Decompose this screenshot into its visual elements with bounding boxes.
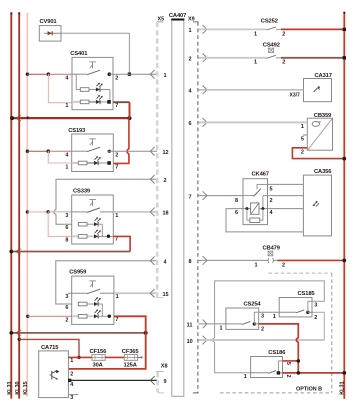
fuse CF156 30A bbox=[90, 349, 108, 368]
wire X9 pin11 to CS254 pin1 bbox=[199, 323, 226, 325]
svg-text:CA715: CA715 bbox=[41, 345, 59, 351]
switch CS252 bbox=[199, 18, 286, 37]
wire branch down to CS186 pin1 (hop over X9-10 wire) bbox=[213, 324, 251, 373]
X9 pin 2 arrow bbox=[189, 54, 208, 63]
wire branch up-loop to CS185 pin3 bbox=[215, 281, 325, 324]
wire CS186 pin2 red to KL31 bbox=[283, 371, 347, 375]
svg-text:2: 2 bbox=[270, 198, 273, 204]
X9 pin 4 arrow bbox=[189, 86, 208, 95]
switch CS959 bbox=[65, 270, 118, 325]
svg-text:KL15: KL15 bbox=[23, 382, 29, 395]
OPTION B dashed frame bbox=[220, 273, 332, 393]
X5 pin 1 arrow bbox=[150, 70, 166, 79]
wire CS339 pin1 to X5 pin18 bbox=[113, 211, 157, 213]
svg-text:KL31: KL31 bbox=[339, 382, 345, 395]
wire red ground chain G1 down to CS193 pin7 bbox=[113, 118, 129, 163]
wire CS959 pin7 ground to G3 and down to CA715 pin2 bbox=[68, 316, 145, 369]
svg-text:7: 7 bbox=[115, 237, 118, 243]
svg-text:2: 2 bbox=[115, 152, 118, 158]
svg-text:CS401: CS401 bbox=[70, 51, 88, 57]
svg-text:2: 2 bbox=[115, 75, 118, 81]
X8 pin 9 arrow bbox=[150, 376, 166, 385]
svg-text:15: 15 bbox=[163, 292, 169, 298]
svg-text:1: 1 bbox=[301, 124, 304, 130]
svg-text:CA356: CA356 bbox=[314, 169, 332, 175]
svg-text:2: 2 bbox=[70, 372, 73, 378]
X9 pin 6 arrow bbox=[189, 118, 208, 127]
wire CS401 pin7 ground (brown/red to G1) bbox=[113, 102, 130, 118]
wire CS254 pin2 red down (hop over X9-10 wire) bbox=[259, 324, 299, 373]
wire CB479 pin2 red to KL31 bbox=[278, 259, 347, 263]
svg-text:CK467: CK467 bbox=[252, 171, 269, 177]
switch CS185 bbox=[273, 291, 318, 321]
svg-text:2: 2 bbox=[314, 315, 317, 321]
X9 pin 11 arrow bbox=[187, 320, 207, 329]
wire X9 pin4 to CA317 X3/7 bbox=[199, 90, 304, 99]
inline connector CB479 bbox=[199, 246, 286, 269]
svg-text:OPTION B: OPTION B bbox=[296, 387, 322, 393]
wire X5 pin4 down to CS959 pin6 bbox=[56, 261, 157, 304]
svg-text:2: 2 bbox=[282, 60, 285, 66]
svg-text:1: 1 bbox=[116, 294, 119, 300]
svg-text:2: 2 bbox=[301, 150, 304, 156]
svg-text:7: 7 bbox=[115, 317, 118, 323]
wire KL15 tap to CS193 pin4 bbox=[26, 149, 72, 153]
svg-text:1: 1 bbox=[254, 31, 257, 37]
bus KL15 left vertical (pink) bbox=[26, 13, 28, 397]
svg-text:CV901: CV901 bbox=[40, 19, 58, 25]
wire KL15 tap down to CS401 pin1 bbox=[48, 74, 72, 103]
connector X9 dashed column bbox=[188, 16, 199, 393]
X9 pin 7 arrow bbox=[189, 191, 208, 200]
wire CA715 pin3 stub bbox=[68, 394, 78, 396]
diode CV901 bbox=[39, 19, 61, 41]
wire CS186 pin5 red bbox=[283, 359, 301, 363]
svg-text:1: 1 bbox=[65, 103, 68, 109]
switch CS186 bbox=[244, 350, 291, 380]
wire KL15 tap to CS339 pin3 bbox=[26, 210, 72, 214]
X5 pin 18 arrow bbox=[150, 208, 168, 217]
svg-text:1: 1 bbox=[189, 28, 192, 34]
connector X8 dashed column bbox=[156, 363, 168, 393]
wire KL15 tap to CS401 pin4 bbox=[26, 72, 72, 76]
wire CK467 pin5 to CA356 bbox=[268, 183, 304, 185]
svg-text:1: 1 bbox=[244, 374, 247, 380]
svg-text:7: 7 bbox=[115, 103, 118, 109]
wire CS401 pin2 to X5 pin1 bbox=[113, 73, 157, 75]
svg-text:2: 2 bbox=[261, 327, 264, 333]
wire KL15 tap down to CS339 pin8 bbox=[48, 212, 72, 237]
svg-text:CS339: CS339 bbox=[73, 188, 91, 194]
bus KL30 left vertical bbox=[18, 12, 20, 398]
X5 pin 15 arrow bbox=[150, 289, 168, 298]
wire CS959 pin1 to X5 pin15 bbox=[114, 292, 157, 294]
svg-text:3: 3 bbox=[65, 294, 68, 300]
svg-text:6: 6 bbox=[65, 225, 68, 231]
wire CS492 pin2 brown to KL31 bbox=[281, 56, 346, 59]
wire CS254 pin3 to CS185 pin1 bbox=[259, 311, 280, 313]
svg-text:2: 2 bbox=[189, 57, 192, 63]
svg-text:6: 6 bbox=[189, 121, 192, 127]
svg-text:8: 8 bbox=[235, 198, 238, 204]
svg-text:1: 1 bbox=[65, 165, 68, 171]
wire CS252 pin2 red to KL31 bbox=[281, 28, 346, 31]
svg-text:3: 3 bbox=[314, 303, 317, 309]
svg-text:3: 3 bbox=[261, 314, 264, 320]
svg-text:7: 7 bbox=[115, 165, 118, 171]
svg-text:2: 2 bbox=[282, 262, 285, 268]
wire CK467 pin6 loop to CA356 bottom bbox=[226, 209, 303, 232]
svg-text:CS186: CS186 bbox=[268, 350, 286, 356]
svg-text:1: 1 bbox=[273, 314, 276, 320]
svg-text:10: 10 bbox=[187, 339, 193, 345]
svg-text:5: 5 bbox=[285, 362, 291, 365]
wire CB359 pin2 red to KL31 bbox=[292, 148, 346, 161]
wire CV901 to node (down to X5-1 net) bbox=[61, 33, 129, 74]
X5 pin 4 arrow bbox=[150, 257, 167, 266]
svg-text:2: 2 bbox=[282, 31, 285, 37]
relay CK467 bbox=[235, 171, 274, 224]
svg-text:X3/7: X3/7 bbox=[290, 92, 301, 98]
svg-text:CS252: CS252 bbox=[261, 18, 278, 24]
svg-text:5: 5 bbox=[270, 186, 273, 192]
svg-text:CS959: CS959 bbox=[69, 270, 87, 276]
wire KL15 tap to CS959 pin2 bbox=[26, 315, 72, 318]
X5 pin 2 arrow bbox=[150, 175, 166, 184]
wire KL30 tap to CA715 pin1 / fuses bbox=[18, 338, 81, 359]
bus KL31 left vertical bbox=[10, 12, 12, 398]
svg-text:CS254: CS254 bbox=[244, 301, 262, 307]
svg-text:KL31: KL31 bbox=[7, 382, 13, 395]
svg-text:CS185: CS185 bbox=[298, 291, 316, 297]
svg-text:X8: X8 bbox=[161, 363, 168, 369]
wire CK467 pin2 to CA356 bbox=[268, 195, 304, 197]
svg-text:1: 1 bbox=[255, 262, 258, 268]
wire X9 pin10 to CS185 pin2 loop bbox=[199, 339, 325, 341]
svg-text:1: 1 bbox=[254, 60, 257, 66]
wire CA715 pin4 to X8 pin9 (black) bbox=[68, 379, 157, 382]
node junction square CV901/CS401.2/X5-1 bbox=[128, 73, 131, 76]
svg-text:2: 2 bbox=[65, 317, 68, 323]
svg-text:11: 11 bbox=[187, 323, 193, 329]
svg-text:5: 5 bbox=[301, 137, 304, 143]
svg-text:1: 1 bbox=[70, 358, 73, 364]
svg-text:6: 6 bbox=[65, 305, 68, 311]
switch CS401 bbox=[65, 51, 118, 110]
wire CA715 pin1 to fuse bbox=[68, 356, 92, 358]
connector X5 dashed column bbox=[157, 16, 164, 297]
svg-text:18: 18 bbox=[163, 211, 169, 217]
svg-text:3: 3 bbox=[65, 213, 68, 219]
fuse CF365 125A bbox=[122, 349, 142, 368]
wire between fuses bbox=[105, 356, 124, 358]
horn relay ECU CA317 bbox=[304, 73, 332, 102]
wire X5 pin2 down to CS339 pin6 (with hop over pink) bbox=[54, 179, 157, 224]
wire X9 pin6 to CB359 pin1 bbox=[199, 121, 308, 123]
ground bus G1 (to KL31, y=118) bbox=[10, 115, 132, 121]
svg-text:2: 2 bbox=[285, 375, 291, 378]
ground bus G2 (to KL31, y=251.5) bbox=[9, 249, 130, 255]
svg-text:2: 2 bbox=[164, 178, 167, 184]
X9 pin 10 arrow bbox=[187, 336, 207, 345]
wire X9 pin7 to CK467 pin8 bbox=[199, 195, 244, 197]
svg-text:KL30: KL30 bbox=[15, 382, 21, 395]
svg-text:CS193: CS193 bbox=[68, 128, 86, 134]
svg-text:125A: 125A bbox=[124, 362, 138, 368]
switch CS492 bbox=[199, 43, 286, 66]
wire CK467 pin4 to CA356 bbox=[268, 208, 304, 210]
svg-text:8: 8 bbox=[189, 259, 192, 265]
svg-text:12: 12 bbox=[163, 150, 169, 156]
switch CS339 bbox=[65, 188, 118, 244]
ground bus G3 (to KL31, y=332.9) bbox=[9, 330, 147, 336]
X9 pin 8 arrow bbox=[189, 256, 208, 265]
module CA407 box bbox=[169, 13, 186, 396]
svg-text:7: 7 bbox=[189, 194, 192, 200]
ECU CA715 bbox=[39, 345, 75, 401]
svg-text:6: 6 bbox=[235, 210, 238, 216]
svg-text:1: 1 bbox=[164, 73, 167, 79]
lamp unit CA356 bbox=[303, 169, 332, 236]
svg-text:30A: 30A bbox=[93, 362, 104, 368]
switch CS193 bbox=[65, 128, 118, 171]
wire CS339 pin7 ground to G2 bbox=[113, 236, 130, 251]
svg-text:1: 1 bbox=[115, 213, 118, 219]
svg-text:9: 9 bbox=[164, 379, 167, 385]
X9 pin 1 arrow bbox=[189, 25, 208, 34]
buzzer CB359 bbox=[301, 113, 333, 156]
switch CS254 bbox=[220, 301, 265, 332]
svg-text:1: 1 bbox=[220, 326, 223, 332]
svg-text:CA407: CA407 bbox=[169, 13, 186, 19]
bus KL31 right vertical (red) bbox=[339, 12, 345, 399]
svg-text:3: 3 bbox=[70, 395, 73, 401]
X5 pin 12 arrow bbox=[150, 147, 168, 156]
svg-text:8: 8 bbox=[65, 237, 68, 243]
wire CS193 pin2 to X5 pin12 bbox=[113, 150, 157, 152]
wire KL15 tap down to CS193 pin1 bbox=[48, 151, 72, 163]
